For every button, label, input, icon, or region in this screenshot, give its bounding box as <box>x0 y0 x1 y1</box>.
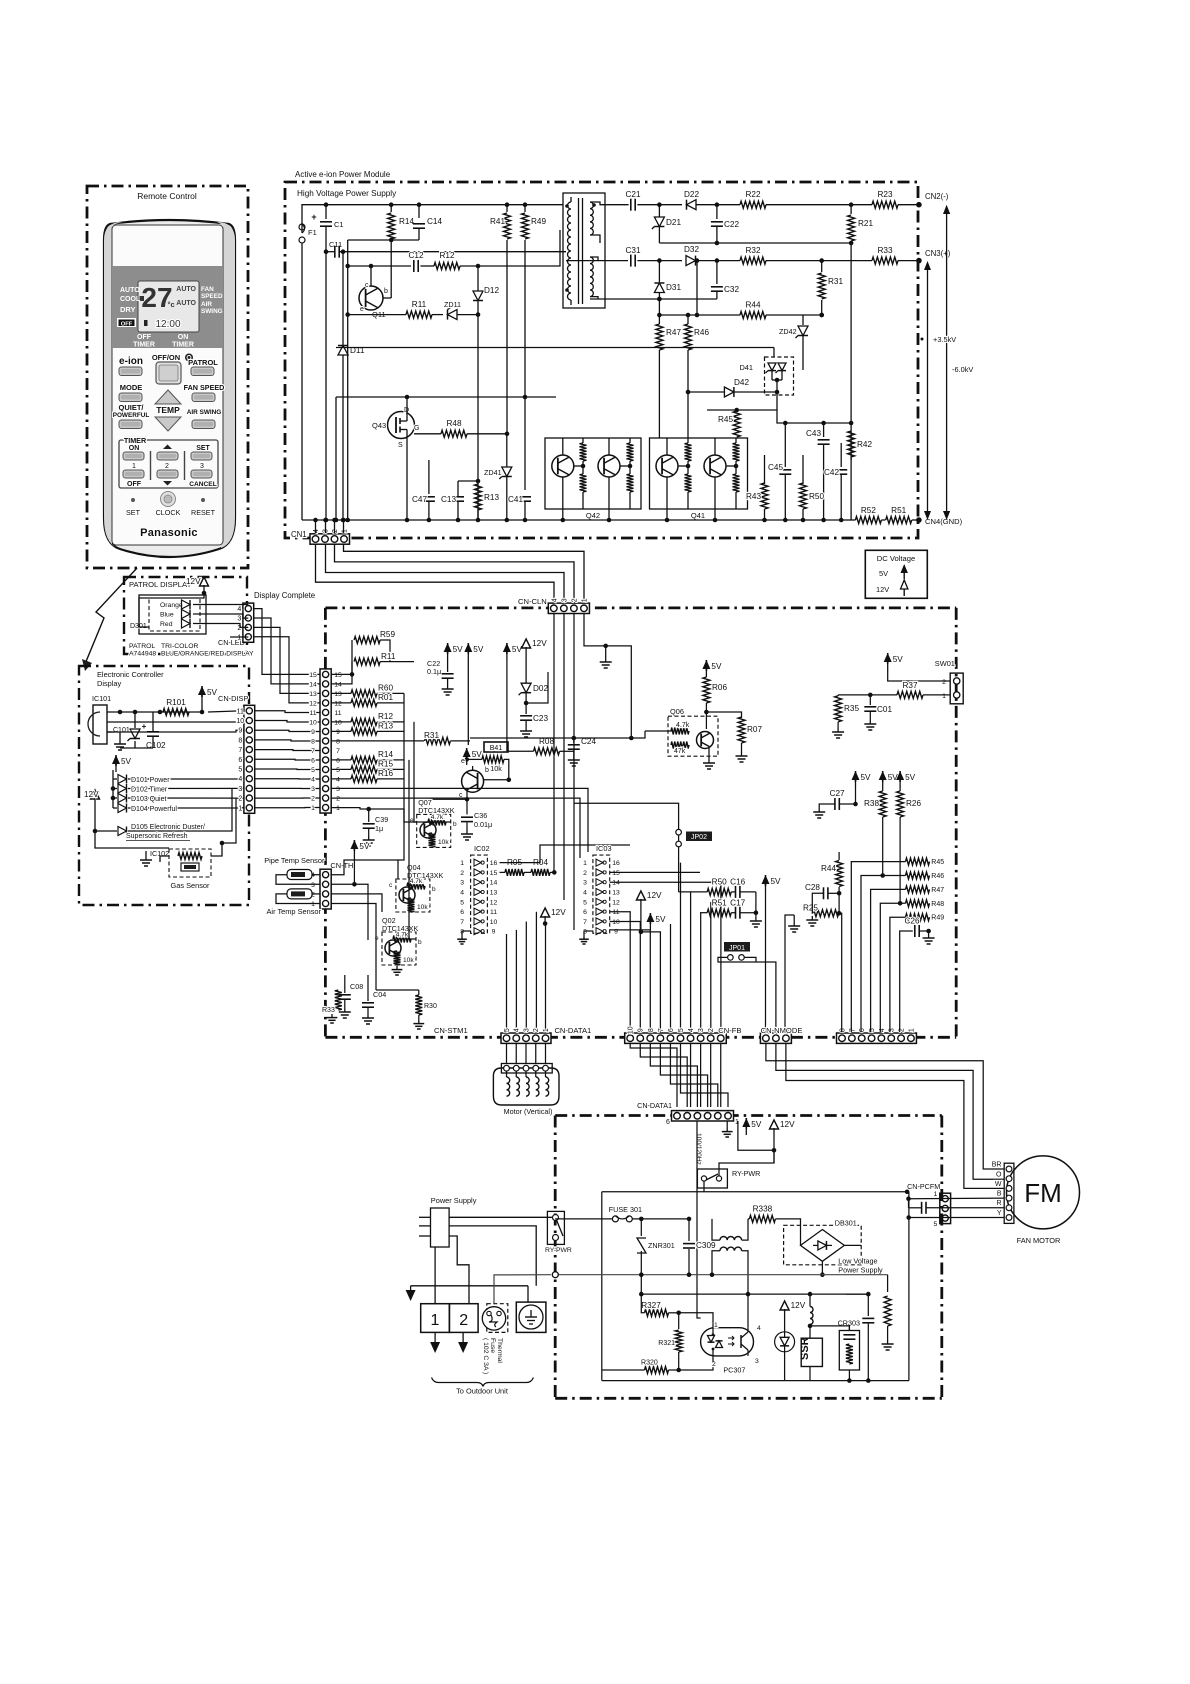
svg-text:R13: R13 <box>484 493 499 502</box>
capacitor C23 <box>525 703 527 714</box>
svg-text:D103 Quiet: D103 Quiet <box>131 796 166 803</box>
CN-CLN pin wires down <box>553 613 555 874</box>
Q11 connections <box>370 266 372 286</box>
svg-text:2: 2 <box>571 598 578 602</box>
C47 top wire <box>428 460 430 490</box>
timer group box <box>119 440 218 488</box>
svg-text:5: 5 <box>238 767 242 774</box>
resistor R16 <box>331 778 351 780</box>
wires CN-LED to 15pin connector <box>254 609 320 675</box>
resistor R38 <box>882 777 884 788</box>
svg-text:C45: C45 <box>768 463 783 472</box>
svg-text:5: 5 <box>460 899 464 906</box>
svg-text:C11: C11 <box>329 240 342 249</box>
terminal down arrows <box>434 1332 436 1344</box>
svg-text:15: 15 <box>490 870 498 877</box>
svg-text:CN1: CN1 <box>291 530 307 539</box>
svg-text:C43: C43 <box>806 429 821 438</box>
svg-text:Air Temp Sensor: Air Temp Sensor <box>267 907 322 916</box>
set clock reset row <box>131 498 135 502</box>
snubber cap <box>867 1294 869 1316</box>
svg-text:6: 6 <box>666 1119 670 1126</box>
svg-text:5V: 5V <box>861 773 872 782</box>
svg-text:R35: R35 <box>844 704 859 713</box>
top rail <box>302 205 563 233</box>
svg-text:3: 3 <box>460 880 464 887</box>
left relay RY-PWR <box>547 1211 564 1244</box>
row R44 <box>659 314 740 316</box>
IC03 output wires right <box>610 871 700 873</box>
svg-text:A744948: A744948 <box>129 651 156 658</box>
svg-text:5V: 5V <box>655 915 666 924</box>
svg-text:R14: R14 <box>378 750 393 759</box>
svg-text:R13: R13 <box>378 722 393 731</box>
thermal fuse <box>487 1304 508 1333</box>
svg-text:Thermal: Thermal <box>496 1338 503 1363</box>
svg-text:OFF/ON: OFF/ON <box>152 353 180 362</box>
5V arrow IC101 <box>201 692 203 703</box>
svg-text:ON: ON <box>129 445 140 452</box>
svg-text:JP02: JP02 <box>691 834 707 841</box>
capacitor C26 <box>914 925 916 937</box>
svg-text:COOL: COOL <box>120 296 141 303</box>
wires led rows to CN-DISP <box>208 711 244 712</box>
svg-text:C14: C14 <box>427 217 442 226</box>
IC02 output wires <box>500 845 631 863</box>
svg-text:1: 1 <box>908 1028 915 1032</box>
svg-text:2: 2 <box>460 870 464 877</box>
svg-text:Active e-ion Power Module: Active e-ion Power Module <box>295 170 391 179</box>
svg-text:3: 3 <box>238 786 242 793</box>
svg-text:C13: C13 <box>441 495 456 504</box>
svg-text:b: b <box>453 821 457 828</box>
svg-text:C36: C36 <box>474 811 487 820</box>
svg-text:4: 4 <box>238 776 242 783</box>
C11 row verticals <box>325 252 327 520</box>
row y410 wires <box>707 409 777 411</box>
svg-text:R46: R46 <box>694 328 709 337</box>
long rows from CN-DISP bottom pins <box>331 788 588 852</box>
down arrow left <box>411 1285 528 1287</box>
capacitor C32 <box>715 258 720 263</box>
motor wires from CN-STM1 <box>506 1044 508 1064</box>
svg-text:2: 2 <box>942 679 946 686</box>
ground right of JP01 <box>793 915 795 922</box>
svg-text:1: 1 <box>342 529 349 533</box>
dashed box D41 <box>765 357 794 395</box>
svg-text:10: 10 <box>236 718 244 725</box>
svg-text:FAN MOTOR: FAN MOTOR <box>1017 1236 1061 1245</box>
capacitor C102 <box>147 731 159 733</box>
svg-text:100/120Hz: 100/120Hz <box>695 1133 702 1165</box>
row y423 wire <box>777 395 824 423</box>
svg-text:CN-TH: CN-TH <box>330 861 353 870</box>
svg-text:( 102 C 3A ): ( 102 C 3A ) <box>482 1338 489 1374</box>
button temp up <box>155 390 181 404</box>
svg-text:7: 7 <box>311 748 315 755</box>
timer buttons row 1 <box>123 452 144 460</box>
svg-text:C23: C23 <box>533 714 548 723</box>
svg-text:Q41: Q41 <box>691 511 705 520</box>
svg-text:R22: R22 <box>745 190 760 199</box>
svg-text:2: 2 <box>165 463 169 470</box>
earth wire <box>527 1286 529 1302</box>
R52 R51 row <box>855 517 881 524</box>
svg-text:2: 2 <box>712 1361 716 1368</box>
svg-text:DC Voltage: DC Voltage <box>877 554 915 563</box>
svg-text:FUSE 301: FUSE 301 <box>609 1205 642 1214</box>
svg-text:3: 3 <box>698 1028 705 1032</box>
capacitor C309 <box>688 1219 690 1241</box>
svg-text:R31: R31 <box>424 731 439 740</box>
svg-text:4: 4 <box>313 529 320 533</box>
diode D round <box>775 1332 795 1352</box>
Q43 source wire <box>406 437 408 520</box>
5V arrow IC03 <box>649 919 651 930</box>
callout line <box>85 568 137 664</box>
svg-text:G: G <box>414 425 419 432</box>
fan motor FM <box>1007 1156 1080 1229</box>
IC02 pin wires to CN-STM1 <box>506 934 508 1032</box>
svg-text:5V: 5V <box>888 773 899 782</box>
svg-text:12V: 12V <box>84 790 99 799</box>
svg-text:4.7k: 4.7k <box>431 814 444 821</box>
Q42 block <box>545 438 641 509</box>
svg-text:CN4(GND): CN4(GND) <box>925 517 963 526</box>
svg-text:D102 Timer: D102 Timer <box>131 787 168 794</box>
svg-text:3: 3 <box>200 463 204 470</box>
svg-text:R320: R320 <box>641 1360 658 1367</box>
svg-text:R44: R44 <box>821 864 836 873</box>
gas sensor wires <box>160 856 169 862</box>
svg-text:SET: SET <box>196 445 210 452</box>
svg-text:R101: R101 <box>166 698 186 707</box>
svg-text:3: 3 <box>755 1358 759 1365</box>
svg-text:R14: R14 <box>399 217 414 226</box>
svg-text:4.7k: 4.7k <box>410 878 423 885</box>
svg-text:2: 2 <box>332 529 339 533</box>
svg-text:Low Voltage: Low Voltage <box>838 1257 877 1266</box>
svg-text:4: 4 <box>583 890 587 897</box>
low rail 1294 <box>641 1293 868 1295</box>
svg-text:F1: F1 <box>308 228 317 237</box>
wire D105 down <box>95 831 169 848</box>
resistors R45-R49 ladder <box>906 858 930 865</box>
svg-text:Electronic Controller: Electronic Controller <box>97 670 164 679</box>
svg-text:SWING: SWING <box>201 308 223 315</box>
svg-text:D32: D32 <box>684 245 699 254</box>
svg-text:BLUE/ORANGE/RED DISPLAY: BLUE/ORANGE/RED DISPLAY <box>161 651 254 658</box>
svg-text:R43: R43 <box>746 492 761 501</box>
svg-text:5: 5 <box>934 1221 938 1228</box>
svg-text:2: 2 <box>336 796 340 803</box>
capacitor C101 <box>130 729 140 739</box>
long row y397 <box>336 396 556 398</box>
svg-text:12V: 12V <box>186 577 201 586</box>
svg-text:R51: R51 <box>712 899 727 908</box>
svg-text:C39: C39 <box>375 815 388 824</box>
coil to SSR <box>809 1294 811 1306</box>
svg-text:7: 7 <box>336 748 340 755</box>
svg-text:1: 1 <box>581 598 588 602</box>
svg-text:PATROL: PATROL <box>188 358 218 367</box>
resistor R50 <box>802 455 804 484</box>
svg-text:1: 1 <box>583 860 587 867</box>
svg-text:5V: 5V <box>879 569 888 578</box>
svg-text:RY-PWR: RY-PWR <box>732 1169 760 1178</box>
svg-text:AUTO: AUTO <box>176 300 196 307</box>
resistor R35 <box>838 694 870 696</box>
PC307 phototransistor <box>740 1335 742 1348</box>
svg-text:R38: R38 <box>864 799 879 808</box>
svg-text:1μ: 1μ <box>375 824 383 833</box>
row y347 long wire <box>336 347 774 349</box>
svg-text:Panasonic: Panasonic <box>140 527 198 539</box>
svg-text:6: 6 <box>336 757 340 764</box>
svg-text:2: 2 <box>708 1028 715 1032</box>
resistor R07 <box>706 712 741 718</box>
svg-text:C1: C1 <box>334 220 344 229</box>
svg-text:7: 7 <box>658 1028 665 1032</box>
svg-text:6: 6 <box>859 1028 866 1032</box>
power supply block <box>431 1208 450 1247</box>
wires CN-DATA1 to bottom connector <box>630 1044 677 1108</box>
svg-text:1: 1 <box>431 1312 440 1329</box>
CN1 riser wires <box>315 520 317 533</box>
svg-text:10k: 10k <box>417 904 428 911</box>
Q43 drain wire <box>406 408 408 414</box>
svg-text:R12: R12 <box>439 251 454 260</box>
resistor R46 <box>687 315 689 324</box>
resistor R44b <box>838 852 840 860</box>
resistor R47 <box>658 315 660 324</box>
resistors R05 R04 <box>505 869 524 876</box>
svg-text:Remote Control: Remote Control <box>137 191 197 201</box>
resistor R49 <box>523 202 528 207</box>
brace to outdoor unit <box>432 1378 534 1387</box>
led D101 Power <box>113 778 117 780</box>
svg-text:1: 1 <box>714 1322 718 1329</box>
capacitor C43 <box>823 423 825 437</box>
varistor ZNR301 <box>640 1219 642 1236</box>
svg-text:4: 4 <box>688 1028 695 1032</box>
svg-text:TIMER: TIMER <box>133 342 155 349</box>
earth terminal <box>516 1302 546 1332</box>
svg-text:6: 6 <box>311 757 315 764</box>
svg-text:12:00: 12:00 <box>155 319 180 330</box>
Q42 inner wires <box>582 438 584 443</box>
12V arrow IC03 <box>640 899 642 909</box>
svg-text:R338: R338 <box>753 1205 773 1214</box>
svg-text:e: e <box>461 758 465 765</box>
svg-text:R321: R321 <box>658 1340 675 1347</box>
resistor R321 <box>678 1313 680 1329</box>
svg-text:15: 15 <box>612 870 620 877</box>
svg-text:Motor (Vertical): Motor (Vertical) <box>504 1107 553 1116</box>
electronic controller display box <box>79 666 249 905</box>
svg-text:D42: D42 <box>734 378 749 387</box>
diode D12 <box>473 291 483 301</box>
capacitor C45 <box>784 423 786 467</box>
svg-text:POWERFUL: POWERFUL <box>113 412 150 419</box>
terminal block 1 <box>421 1304 450 1333</box>
svg-text:5V: 5V <box>121 757 132 766</box>
resistor R37 <box>897 691 923 698</box>
svg-text:+: + <box>142 722 147 731</box>
bottom power box border <box>554 1116 557 1399</box>
remote control section box <box>87 186 248 568</box>
svg-text:Q06: Q06 <box>670 707 684 716</box>
capacitor C27 <box>855 777 857 788</box>
svg-text:High Voltage Power Supply: High Voltage Power Supply <box>297 189 397 198</box>
svg-text:2: 2 <box>237 625 241 632</box>
led D103 Quiet <box>111 796 116 801</box>
svg-text:b: b <box>384 288 388 295</box>
svg-text:B: B <box>997 1191 1002 1198</box>
5V arrow leds <box>115 761 117 772</box>
svg-text:D104 Powerful: D104 Powerful <box>131 806 177 813</box>
svg-text:D21: D21 <box>666 218 681 227</box>
svg-text:C102: C102 <box>146 741 166 750</box>
svg-text:R31: R31 <box>828 277 843 286</box>
patrol wires <box>193 604 248 606</box>
svg-text:C21: C21 <box>625 190 640 199</box>
svg-text:10: 10 <box>628 1026 635 1034</box>
svg-text:TRI-COLOR: TRI-COLOR <box>161 643 198 650</box>
svg-text:TEMP: TEMP <box>156 405 180 415</box>
svg-text:W: W <box>995 1181 1002 1188</box>
svg-text:2: 2 <box>311 796 315 803</box>
resistor R31b <box>424 737 450 744</box>
svg-text:R50: R50 <box>809 492 824 501</box>
row C12 R12 <box>345 264 350 269</box>
svg-text:4: 4 <box>551 598 558 602</box>
svg-text:4: 4 <box>336 777 340 784</box>
svg-text:10: 10 <box>612 919 620 926</box>
svg-text:C22: C22 <box>724 220 739 229</box>
inner loop rect <box>601 1219 603 1381</box>
IC03 pin wires to CN-DATA1 <box>610 912 631 1032</box>
svg-text:5V: 5V <box>751 1120 762 1129</box>
resistor R11b <box>331 662 352 684</box>
svg-text:16: 16 <box>612 860 620 867</box>
svg-text:AUTO: AUTO <box>176 286 196 293</box>
C47 C13 R13 C41 row <box>428 490 430 494</box>
svg-text:C41: C41 <box>508 495 523 504</box>
svg-text:11: 11 <box>237 708 244 715</box>
svg-text:R26: R26 <box>906 799 921 808</box>
SW01 wiring <box>887 659 889 670</box>
svg-text:b: b <box>485 767 489 774</box>
svg-text:R15: R15 <box>378 760 393 769</box>
power wires to relay <box>449 1216 552 1218</box>
relay RY-PWR right <box>697 1169 727 1188</box>
svg-text:5V: 5V <box>207 688 218 697</box>
svg-text:5V: 5V <box>473 645 484 654</box>
resistor R08 <box>534 748 560 755</box>
svg-text:3: 3 <box>311 786 315 793</box>
svg-text:RESET: RESET <box>191 508 216 517</box>
svg-text:9: 9 <box>638 1028 645 1032</box>
svg-text:C32: C32 <box>724 285 739 294</box>
svg-text:13: 13 <box>490 890 498 897</box>
resistor R51b C17 <box>707 909 731 916</box>
svg-text:CN-STM1: CN-STM1 <box>434 1026 468 1035</box>
svg-text:ZD42: ZD42 <box>779 327 797 336</box>
bridge DB301 <box>784 1225 862 1265</box>
svg-text:SPEED: SPEED <box>201 293 223 300</box>
svg-text:R07: R07 <box>747 725 762 734</box>
svg-text:C16: C16 <box>730 878 745 887</box>
svg-text:12: 12 <box>334 700 342 707</box>
CN-NMODE riser wires <box>839 913 842 1032</box>
svg-text:C17: C17 <box>730 899 745 908</box>
svg-text:3: 3 <box>583 880 587 887</box>
svg-text:OFF: OFF <box>127 481 142 488</box>
svg-text:12: 12 <box>309 700 317 707</box>
resistor R42 <box>848 431 855 457</box>
button temp down <box>155 417 181 431</box>
kV arrows <box>946 209 948 515</box>
svg-text:9: 9 <box>311 729 315 736</box>
zener ZD42 <box>802 315 804 325</box>
svg-text:7: 7 <box>460 919 464 926</box>
svg-text:R33: R33 <box>322 1007 335 1014</box>
svg-text:11: 11 <box>490 909 497 916</box>
svg-text:47k: 47k <box>674 748 686 755</box>
svg-text:CANCEL: CANCEL <box>189 481 216 488</box>
svg-text:C26: C26 <box>904 917 919 926</box>
svg-text:C309: C309 <box>696 1241 716 1250</box>
resistor R01 <box>331 702 351 704</box>
svg-text:13: 13 <box>334 691 342 698</box>
svg-text:5V: 5V <box>359 842 370 851</box>
svg-text:CN-DATA1: CN-DATA1 <box>637 1101 672 1110</box>
svg-text:+: + <box>311 212 316 222</box>
svg-text:14: 14 <box>309 681 317 688</box>
svg-text:3: 3 <box>237 616 241 623</box>
svg-text:SET: SET <box>126 508 141 517</box>
IC101 receiver <box>93 705 107 744</box>
diode D11 <box>342 252 344 345</box>
svg-text:C47: C47 <box>412 495 427 504</box>
svg-text:R45: R45 <box>931 859 944 866</box>
svg-text:D31: D31 <box>666 283 681 292</box>
IC101 wires <box>107 711 202 713</box>
svg-text:10k: 10k <box>403 957 414 964</box>
svg-text:6: 6 <box>238 757 242 764</box>
terminal block 2 <box>449 1304 478 1333</box>
main controller box border <box>324 608 327 1037</box>
svg-text:JP01: JP01 <box>729 945 745 952</box>
svg-text:D02: D02 <box>533 684 548 693</box>
svg-text:R49: R49 <box>531 217 546 226</box>
svg-text:D12: D12 <box>484 286 499 295</box>
svg-text:Gas Sensor: Gas Sensor <box>170 881 210 890</box>
svg-text:1: 1 <box>934 1191 938 1198</box>
svg-text:1: 1 <box>237 634 241 641</box>
svg-text:Q43: Q43 <box>372 421 386 430</box>
svg-text:D41: D41 <box>739 363 753 372</box>
svg-text:6: 6 <box>668 1028 675 1032</box>
resistor R31 <box>819 258 824 263</box>
svg-text:12V: 12V <box>791 1301 806 1310</box>
svg-text:IC03: IC03 <box>596 844 612 853</box>
svg-text:10: 10 <box>334 719 342 726</box>
svg-text:ZD11: ZD11 <box>444 300 461 309</box>
svg-text:6: 6 <box>460 909 464 916</box>
svg-text:R11: R11 <box>381 652 396 661</box>
